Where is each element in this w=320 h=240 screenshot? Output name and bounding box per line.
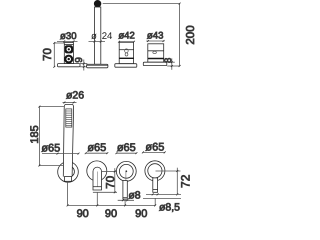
svg-text:ø42: ø42 (118, 31, 135, 42)
dim ø42 (118, 41, 135, 43)
svg-text:24: 24 (102, 31, 113, 42)
dim ø30 (57, 40, 78, 42)
dim 72 (156, 168, 181, 196)
svg-text:ø65: ø65 (117, 142, 136, 154)
handshower outlet tab (65, 177, 72, 182)
svg-text:9: 9 (74, 57, 85, 63)
dim ø26 (63, 102, 77, 104)
handshower front view grip hatch (66, 109, 72, 127)
dim ø43 (146, 40, 164, 42)
escutcheon E1 holder ring (58, 162, 79, 183)
dim ø8,5 (143, 193, 181, 198)
dim ø8 (118, 199, 134, 201)
dim ø24 (89, 41, 106, 43)
svg-text:185: 185 (29, 125, 41, 143)
dim 185 (38, 106, 64, 167)
svg-text:ø65: ø65 (87, 142, 106, 154)
escutcheon E4 handle trim (145, 161, 165, 192)
svg-text:ø8,5: ø8,5 (159, 202, 180, 214)
diverter D1 ø42 body (119, 42, 133, 63)
svg-text:ø65: ø65 (145, 141, 164, 153)
handle H1 body (side view) (64, 43, 73, 64)
svg-text:ø30: ø30 (60, 31, 77, 42)
svg-text:90: 90 (77, 208, 89, 220)
handshower front view body (63, 104, 73, 176)
svg-text:ø26: ø26 (66, 89, 84, 101)
dim 90 baseline (67, 181, 156, 206)
handle H1 base plate (58, 64, 81, 67)
svg-text:ø: ø (91, 31, 97, 42)
handshower side view rod (95, 7, 101, 64)
dim 8 (167, 58, 179, 70)
dim 9 (80, 60, 87, 71)
dim ø65 E4 (142, 151, 166, 153)
svg-text:ø43: ø43 (147, 31, 164, 42)
svg-text:90: 90 (135, 208, 147, 220)
svg-text:70: 70 (42, 48, 54, 61)
svg-text:ø8: ø8 (128, 189, 140, 201)
handle H1 upper knob (65, 45, 73, 53)
svg-text:ø65: ø65 (41, 143, 60, 155)
valve V1 ø43 body (148, 44, 164, 62)
svg-text:70: 70 (105, 176, 117, 189)
svg-text:72: 72 (178, 174, 192, 188)
dim ø65 E1 (42, 153, 79, 155)
dim ø65 E3 (115, 152, 137, 154)
escutcheon E3 handle trim (116, 161, 136, 199)
handshower side view ball top (94, 0, 101, 7)
svg-text:90: 90 (105, 208, 117, 220)
dim 70 (53, 42, 64, 68)
svg-text:8: 8 (163, 58, 174, 63)
svg-text:200: 200 (185, 25, 197, 44)
handle H1 lower knob (64, 55, 73, 64)
dim ø65 E2 (85, 152, 109, 154)
dim 70 spout (93, 168, 117, 193)
dim 200 (103, 3, 181, 67)
valve V1 base plate (143, 62, 167, 65)
handshower side view base plate (87, 64, 108, 68)
escutcheon E2 spout (87, 161, 107, 190)
diverter D1 base plate (115, 64, 137, 67)
dim ø24 label (91, 31, 113, 42)
